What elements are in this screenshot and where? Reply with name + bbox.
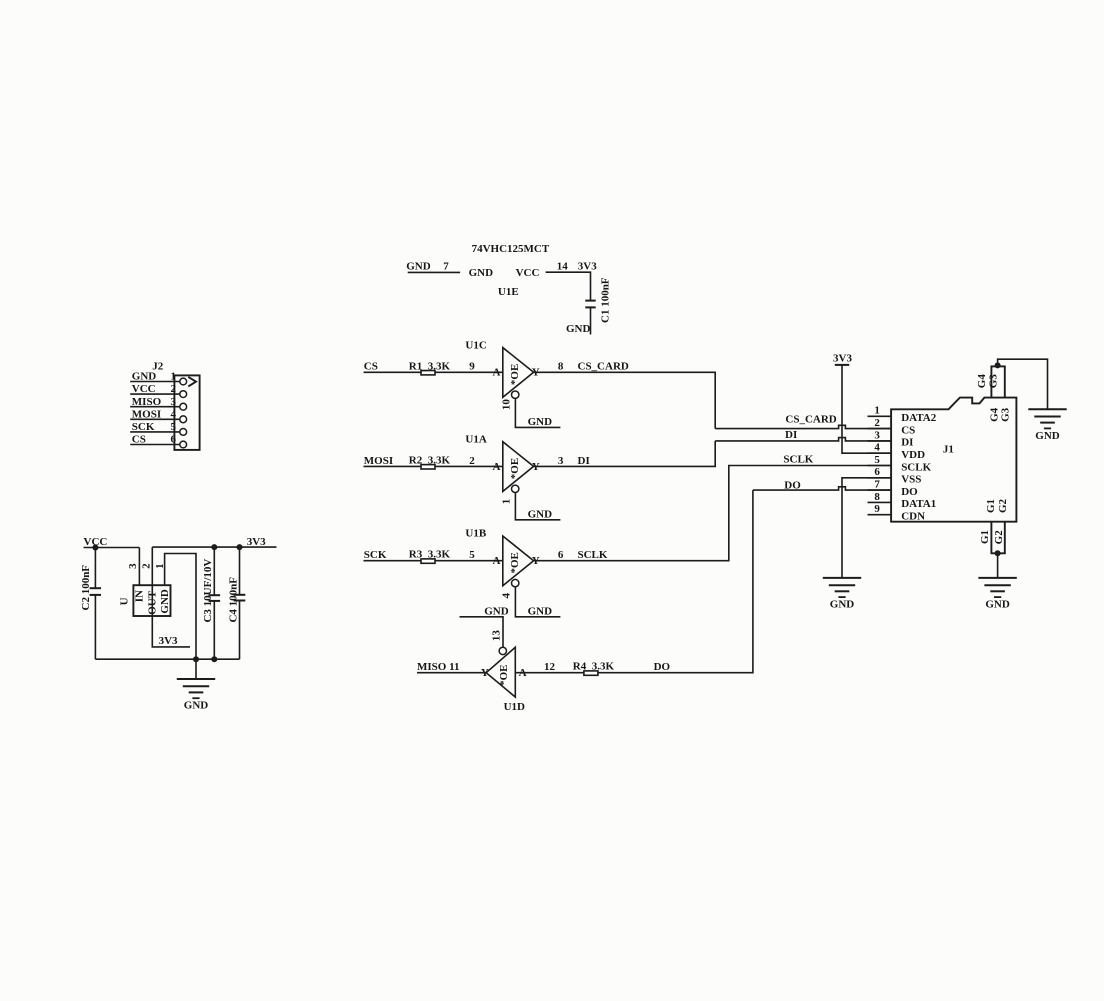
wire U1D input to resistor R4 <box>515 672 583 674</box>
svg-text:GND: GND <box>528 605 553 617</box>
svg-text:5: 5 <box>171 421 177 433</box>
wire J2 pin 4 <box>130 418 179 420</box>
svg-text:GND: GND <box>1035 430 1060 442</box>
svg-text:R3_3.3K: R3_3.3K <box>409 549 451 561</box>
svg-text:*OE: *OE <box>509 458 521 479</box>
svg-text:3: 3 <box>127 563 139 569</box>
svg-text:2: 2 <box>874 417 880 429</box>
svg-text:3V3: 3V3 <box>578 261 597 273</box>
svg-text:DI: DI <box>785 429 797 441</box>
svg-text:7: 7 <box>874 479 880 491</box>
J2 pin 5 circle <box>180 429 187 436</box>
svg-text:DO: DO <box>901 486 918 498</box>
svg-text:3: 3 <box>558 455 564 467</box>
svg-text:DO: DO <box>654 661 671 673</box>
svg-text:9: 9 <box>469 361 475 373</box>
wire J2 pin 3 <box>130 406 179 408</box>
svg-text:*OE: *OE <box>509 364 521 385</box>
enable bubble pin 13 <box>499 647 506 654</box>
svg-text:3: 3 <box>874 429 880 441</box>
J1 pin 1 stub <box>868 415 892 417</box>
svg-text:4: 4 <box>171 408 177 420</box>
svg-text:13: 13 <box>490 630 502 642</box>
svg-text:G1: G1 <box>985 499 997 513</box>
J2 pin 3 circle <box>180 403 187 410</box>
svg-text:3V3: 3V3 <box>159 635 178 647</box>
resistor R4 3.3K <box>584 671 598 675</box>
svg-text:CDN: CDN <box>901 511 925 523</box>
svg-text:14: 14 <box>557 261 569 273</box>
svg-text:1: 1 <box>501 499 513 504</box>
svg-text:8: 8 <box>874 491 880 503</box>
ground bottom tab <box>978 578 1016 611</box>
svg-text:A: A <box>493 461 501 473</box>
wire ground rail <box>95 658 239 660</box>
svg-text:GND: GND <box>406 261 431 273</box>
svg-text:VSS: VSS <box>901 474 921 486</box>
svg-text:U1B: U1B <box>465 528 486 540</box>
J2 pin 4 circle <box>180 416 187 423</box>
svg-text:GND: GND <box>528 508 553 520</box>
svg-text:GND: GND <box>830 599 855 611</box>
capacitor C2 <box>90 548 101 660</box>
svg-text:74VHC125MCT: 74VHC125MCT <box>472 243 550 255</box>
capacitor C3 <box>209 547 221 659</box>
svg-text:12: 12 <box>544 661 556 673</box>
svg-text:C3 10UF/10V: C3 10UF/10V <box>202 559 214 623</box>
regulator U body <box>133 585 170 616</box>
svg-text:U1C: U1C <box>465 339 486 351</box>
svg-text:4: 4 <box>874 442 880 454</box>
junction top tab <box>995 362 1001 368</box>
wire DI from U1A to J1 pin 3 <box>534 441 716 467</box>
J1 top tab G4 G3 <box>991 366 1006 397</box>
buffer gate U1D triangle <box>486 647 515 697</box>
enable bubble pin 10 <box>512 391 519 398</box>
svg-text:G3: G3 <box>1000 407 1012 422</box>
svg-text:MISO: MISO <box>132 396 162 408</box>
J2 pin 1 arrow marker <box>188 377 196 387</box>
J1 pin 8 stub <box>868 501 892 503</box>
svg-text:5: 5 <box>874 454 880 466</box>
wire J2 pin 1 <box>130 381 179 383</box>
wire resistor to buffer input <box>435 371 503 373</box>
wire resistor to buffer input <box>435 560 503 562</box>
ground regulator section <box>177 679 215 712</box>
connector J2 body <box>174 375 199 450</box>
enable bubble pin 1 <box>512 485 519 492</box>
svg-text:GND: GND <box>484 605 509 617</box>
svg-text:10: 10 <box>501 399 513 410</box>
buffer gate U1C triangle <box>503 348 534 398</box>
svg-text:6: 6 <box>874 466 880 478</box>
svg-text:7: 7 <box>443 261 449 273</box>
wire C1 to GND <box>590 307 592 334</box>
resistor R1 3.3K <box>421 371 435 375</box>
svg-text:CS: CS <box>901 424 915 436</box>
svg-text:DO: DO <box>784 479 801 491</box>
svg-text:G2: G2 <box>993 530 1005 545</box>
svg-text:U: U <box>118 597 130 605</box>
svg-text:GND: GND <box>566 323 591 335</box>
svg-text:CS_CARD: CS_CARD <box>785 414 836 426</box>
svg-text:G1: G1 <box>979 530 991 544</box>
svg-text:IN: IN <box>134 590 146 602</box>
wire VSS pin 6 to ground <box>842 478 891 578</box>
wire CS_CARD from U1C to J1 pin 2 <box>534 372 716 428</box>
svg-text:MISO 11: MISO 11 <box>417 661 459 673</box>
svg-text:A: A <box>493 555 501 567</box>
enable bubble pin 4 <box>512 579 519 586</box>
resistor R2 3.3K <box>421 465 435 469</box>
power bar 3V3 <box>835 364 849 366</box>
capacitor C4 <box>234 547 246 659</box>
wire J2 pin 6 <box>130 444 179 446</box>
buffer gate U1A triangle <box>503 442 534 492</box>
svg-text:G3: G3 <box>987 374 999 389</box>
svg-text:DATA2: DATA2 <box>901 412 937 424</box>
svg-text:G2: G2 <box>997 498 1009 513</box>
junction at C3 top <box>211 544 217 550</box>
wire input to resistor <box>364 371 422 373</box>
svg-text:GND: GND <box>528 416 553 428</box>
J1 pin 9 stub <box>868 514 892 516</box>
svg-text:C1 100nF: C1 100nF <box>599 277 611 323</box>
svg-text:4: 4 <box>501 593 513 599</box>
wire GND stem <box>195 659 197 679</box>
wire enable pin 13 to GND stub <box>460 617 504 647</box>
svg-text:CS_CARD: CS_CARD <box>578 361 629 373</box>
ground top right <box>1028 409 1066 442</box>
svg-text:SCK: SCK <box>364 549 387 561</box>
J1 pin 4 stub <box>868 452 892 454</box>
svg-text:MOSI: MOSI <box>132 408 161 420</box>
J2 pin 2 circle <box>180 391 187 398</box>
svg-text:J1: J1 <box>943 444 954 456</box>
svg-text:U1E: U1E <box>498 286 519 298</box>
svg-text:VDD: VDD <box>901 449 925 461</box>
wire J2 pin 2 <box>130 393 179 395</box>
svg-text:9: 9 <box>874 503 880 515</box>
wire bottom tab to ground <box>997 553 999 578</box>
J1 pin 5 stub <box>868 465 892 467</box>
svg-text:2: 2 <box>171 383 177 395</box>
svg-text:R2_3.3K: R2_3.3K <box>409 454 451 466</box>
svg-text:VCC: VCC <box>132 383 156 395</box>
svg-text:CS: CS <box>364 361 378 373</box>
ground VSS <box>823 578 861 611</box>
svg-text:2: 2 <box>140 563 152 569</box>
svg-text:MOSI: MOSI <box>364 455 393 467</box>
wire input to resistor <box>364 560 422 562</box>
wire enable pin to GND stub <box>515 398 560 427</box>
wire MISO to U1D output <box>417 672 486 674</box>
wire U1E GND pin stub <box>408 271 460 273</box>
svg-text:G4: G4 <box>976 374 988 389</box>
wire VCC pin 14 to C1 <box>546 272 591 300</box>
svg-text:1: 1 <box>874 405 880 417</box>
svg-text:GND: GND <box>985 599 1010 611</box>
J1 pin 6 stub <box>868 477 892 479</box>
svg-text:SCK: SCK <box>132 421 155 433</box>
wire 3V3 rail <box>152 546 276 548</box>
svg-text:R1_3.3K: R1_3.3K <box>409 360 451 372</box>
svg-text:3V3: 3V3 <box>247 536 266 548</box>
svg-text:2: 2 <box>469 455 475 467</box>
svg-text:SCLK: SCLK <box>901 461 931 473</box>
svg-text:6: 6 <box>171 434 177 446</box>
svg-text:SCLK: SCLK <box>578 549 608 561</box>
svg-text:DATA1: DATA1 <box>901 498 936 510</box>
junction bottom tab <box>995 550 1001 556</box>
svg-text:3V3: 3V3 <box>833 352 852 364</box>
wire resistor to buffer input <box>435 465 503 467</box>
svg-text:A: A <box>493 367 501 379</box>
svg-text:*OE: *OE <box>509 552 521 573</box>
capacitor C1 <box>585 301 595 308</box>
junction ground rail at GND stem <box>193 656 199 662</box>
J1 bottom tab G1 G2 <box>991 522 1006 554</box>
wire top tab to ground <box>998 359 1048 409</box>
svg-text:DI: DI <box>901 437 913 449</box>
J1 pin 2 stub <box>868 428 892 430</box>
svg-text:8: 8 <box>558 361 564 373</box>
svg-text:GND: GND <box>184 700 209 712</box>
svg-text:U1A: U1A <box>465 433 486 445</box>
svg-text:R4_3.3K: R4_3.3K <box>573 661 615 673</box>
svg-text:SCLK: SCLK <box>783 453 813 465</box>
wire enable pin to GND stub <box>515 587 560 617</box>
J2 pin 1 circle <box>180 378 187 385</box>
wire pin 3 IN <box>138 548 140 586</box>
wire SCLK from U1B to J1 pin 5 <box>534 466 892 561</box>
svg-text:GND: GND <box>132 371 157 383</box>
J2 pin 6 circle <box>180 441 187 448</box>
svg-text:DI: DI <box>578 455 590 467</box>
svg-text:1: 1 <box>171 371 177 383</box>
J1 pin 3 stub <box>868 440 892 442</box>
resistor R3 3.3K <box>421 559 435 563</box>
junction at C2 <box>92 545 98 551</box>
wire pin 1 GND loop <box>165 554 196 660</box>
junction at C4 top <box>237 544 243 550</box>
svg-text:GND: GND <box>159 589 171 614</box>
svg-text:GND: GND <box>469 267 494 279</box>
wire enable pin to GND stub <box>515 493 560 520</box>
wire 3V3 to VDD pin 4 <box>842 365 891 453</box>
wire DO from R4 to J1 pin 7 <box>598 490 753 673</box>
wire pin 2 OUT down to 3V3 stub <box>152 547 190 647</box>
wire input to resistor <box>364 465 422 467</box>
svg-text:6: 6 <box>558 549 564 561</box>
svg-text:CS: CS <box>132 434 146 446</box>
svg-text:C2 100nF: C2 100nF <box>80 565 92 611</box>
wire VCC rail <box>84 547 140 549</box>
J1 pin 7 stub <box>868 489 892 491</box>
buffer gate U1B triangle <box>503 536 534 586</box>
svg-text:C4 100nF: C4 100nF <box>227 577 239 623</box>
svg-text:VCC: VCC <box>516 267 540 279</box>
svg-text:*OE: *OE <box>498 664 510 685</box>
wire J2 pin 5 <box>130 431 179 433</box>
svg-text:3: 3 <box>171 396 177 408</box>
junction ground rail at C3 <box>211 656 217 662</box>
connector J1 body outline <box>891 398 1016 522</box>
svg-text:U1D: U1D <box>504 701 525 713</box>
svg-text:5: 5 <box>469 549 475 561</box>
